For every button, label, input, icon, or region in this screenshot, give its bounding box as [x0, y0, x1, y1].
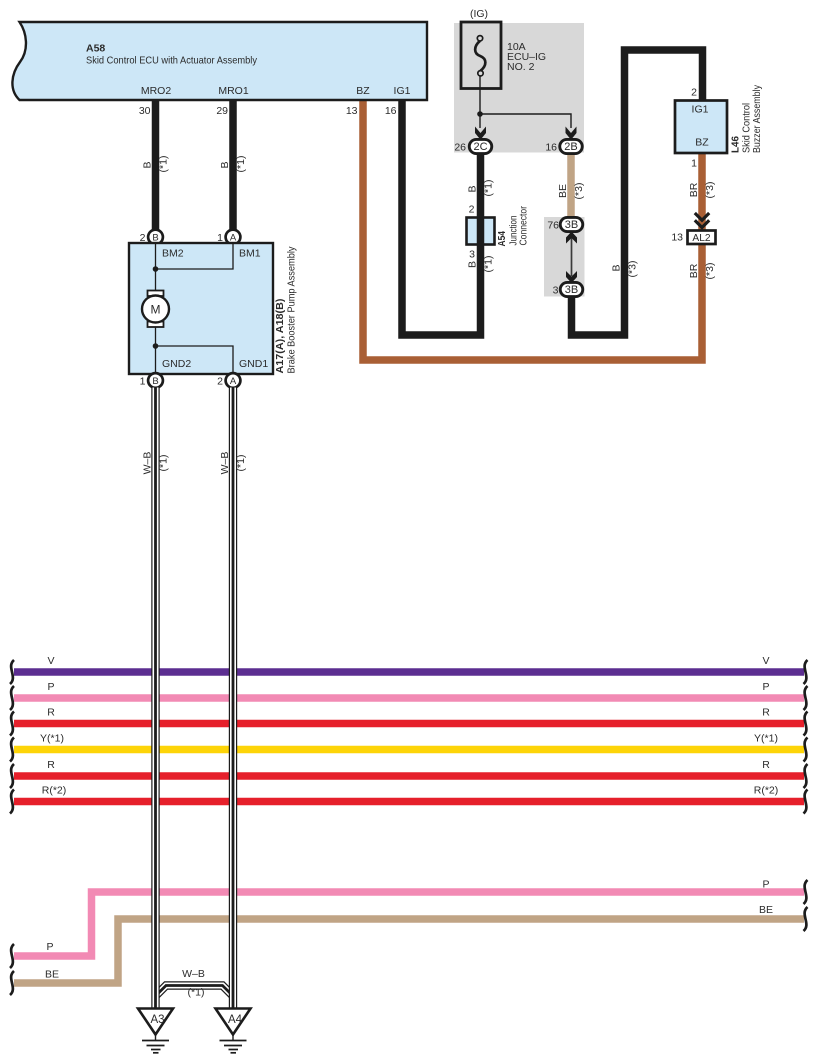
svg-text:Brake Booster Pump Assembly: Brake Booster Pump Assembly	[286, 246, 298, 374]
svg-text:3B: 3B	[565, 219, 578, 231]
svg-text:(*3): (*3)	[704, 182, 716, 199]
connector break squiggle BE lower-right	[804, 907, 808, 931]
svg-text:BM2: BM2	[162, 248, 184, 260]
svg-text:IG1: IG1	[394, 85, 411, 97]
svg-text:BR: BR	[688, 182, 700, 197]
arrows between 3B junctions	[566, 232, 577, 284]
svg-text:R(*2): R(*2)	[754, 785, 779, 797]
connector B pin2 at pump top	[140, 230, 163, 245]
svg-text:A3: A3	[150, 1014, 164, 1026]
wire W-B right vertical	[219, 388, 247, 1010]
svg-text:(*1): (*1)	[235, 455, 247, 472]
svg-text:A17(A), A18(B): A17(A), A18(B)	[274, 299, 286, 374]
svg-text:2C: 2C	[473, 141, 487, 153]
svg-text:1: 1	[691, 158, 697, 170]
svg-text:2: 2	[691, 87, 697, 99]
svg-text:Y(*1): Y(*1)	[40, 733, 64, 745]
svg-text:AL2: AL2	[692, 233, 710, 244]
svg-text:13: 13	[346, 105, 358, 117]
L46 buzzer box	[675, 84, 763, 169]
wire: fuse output thin line with junction	[477, 76, 571, 128]
label B (*1) on MRO2 wire	[142, 156, 170, 173]
svg-text:(*1): (*1)	[483, 180, 495, 197]
svg-text:P: P	[46, 941, 53, 953]
svg-text:B: B	[142, 161, 154, 168]
connector break squiggle R2 right	[804, 764, 808, 788]
svg-text:GND1: GND1	[239, 358, 268, 370]
svg-text:3: 3	[469, 249, 475, 261]
connector break squiggle P lower-left	[10, 944, 14, 968]
svg-text:2: 2	[469, 204, 475, 216]
motor M	[142, 291, 169, 328]
connector break squiggle P left	[10, 686, 14, 710]
svg-text:W–B: W–B	[142, 452, 154, 475]
svg-text:Y(*1): Y(*1)	[754, 733, 778, 745]
connector 2B	[545, 139, 582, 153]
connector 3B lower	[553, 282, 583, 296]
fuse block shading region	[454, 23, 584, 153]
wire: ECU MRO1 black	[229, 100, 237, 230]
svg-text:BE: BE	[557, 184, 569, 198]
svg-text:R: R	[762, 759, 770, 771]
svg-text:R: R	[47, 759, 55, 771]
svg-text:26: 26	[454, 142, 466, 154]
connector break squiggle Y right	[804, 738, 808, 762]
label B (*3) on black loop	[611, 261, 639, 278]
svg-text:V: V	[47, 655, 54, 667]
svg-text:M: M	[151, 303, 161, 317]
wire R red 1	[14, 707, 804, 724]
arrow into 2C	[475, 127, 486, 140]
svg-text:Connector: Connector	[518, 206, 530, 246]
svg-text:B: B	[467, 185, 479, 192]
svg-text:(*1): (*1)	[158, 156, 170, 173]
svg-text:P: P	[762, 879, 769, 891]
svg-text:3: 3	[553, 285, 559, 297]
svg-text:MRO1: MRO1	[218, 85, 248, 97]
double chevron arrow into AL2	[695, 213, 709, 228]
connector B pin1 at pump bottom	[140, 373, 163, 388]
svg-text:A: A	[230, 376, 237, 387]
svg-text:W–B: W–B	[219, 452, 231, 475]
svg-text:A4: A4	[228, 1014, 243, 1026]
connector break squiggle P lower-right	[804, 880, 808, 904]
svg-text:BE: BE	[45, 969, 59, 981]
svg-text:BM1: BM1	[239, 248, 261, 260]
wire R red 2	[14, 759, 804, 776]
connector break squiggle R3 right	[804, 790, 808, 814]
connector AL2	[671, 231, 715, 245]
svg-text:P: P	[47, 681, 54, 693]
junction connector A54	[467, 204, 530, 261]
svg-text:(*3): (*3)	[704, 263, 716, 280]
svg-text:(*1): (*1)	[158, 455, 170, 472]
connector A pin1 at pump top	[217, 230, 240, 245]
label B (*1) above A54	[467, 180, 495, 197]
svg-text:2: 2	[217, 376, 223, 388]
svg-text:(IG): (IG)	[470, 8, 488, 20]
svg-text:P: P	[762, 681, 769, 693]
label 10A ECU-IG NO. 2	[507, 41, 546, 73]
svg-text:R: R	[47, 707, 55, 719]
svg-text:B: B	[611, 264, 623, 271]
fuse ECU-IG NO.2	[461, 22, 501, 89]
svg-text:BZ: BZ	[695, 137, 709, 149]
svg-text:R(*2): R(*2)	[42, 785, 67, 797]
arrow into 2B	[566, 127, 577, 140]
wire R(*2) red 3	[14, 785, 804, 802]
svg-text:(*1): (*1)	[483, 256, 495, 273]
wire W-B left vertical	[142, 388, 170, 1010]
svg-text:BE: BE	[759, 904, 773, 916]
wire BE tan lower elbow	[14, 904, 804, 983]
connector break squiggle Y left	[10, 738, 14, 762]
junction block shading region around 3B	[544, 217, 585, 297]
ECU pin labels	[141, 85, 411, 97]
svg-text:A54: A54	[496, 231, 508, 247]
label BR (*3) above AL2	[688, 182, 716, 199]
svg-text:Buzzer Assembly: Buzzer Assembly	[751, 84, 763, 153]
label B (*1) below A54	[467, 256, 495, 273]
label BR (*3) below AL2	[688, 263, 716, 280]
wire P pink	[14, 681, 804, 698]
connector A pin2 at pump bottom	[217, 373, 240, 388]
svg-text:IG1: IG1	[692, 104, 709, 116]
svg-text:A58: A58	[86, 43, 105, 55]
svg-text:(*1): (*1)	[188, 987, 205, 999]
svg-text:2B: 2B	[564, 141, 577, 153]
svg-text:16: 16	[545, 142, 557, 154]
svg-text:(*3): (*3)	[573, 183, 585, 200]
wire P pink lower elbow	[14, 879, 804, 957]
svg-text:B: B	[467, 261, 479, 268]
svg-text:16: 16	[385, 105, 397, 117]
svg-text:76: 76	[547, 220, 559, 232]
ECU A58 box	[12, 22, 427, 100]
connector break squiggle R1 right	[804, 712, 808, 736]
svg-text:BZ: BZ	[356, 85, 370, 97]
svg-text:V: V	[762, 655, 769, 667]
pump inner wiring bottom	[153, 327, 233, 373]
connector 2C	[454, 139, 491, 153]
wire: ECU MRO2 black	[152, 100, 160, 230]
label BE (*3) on tan wire	[557, 183, 585, 200]
label (IG)	[470, 8, 488, 20]
svg-text:B: B	[152, 376, 158, 387]
svg-text:(*1): (*1)	[235, 156, 247, 173]
wire: ECU IG1 black to A54/2C	[402, 100, 481, 335]
connector break squiggle R1 left	[10, 712, 14, 736]
connector break squiggle R3 left	[10, 790, 14, 814]
connector break squiggle V right	[804, 660, 808, 684]
ECU pin numbers	[139, 105, 397, 117]
brake booster pump assembly box A17/A18	[129, 243, 298, 374]
wire: 3B to L46 IG1 black loop	[572, 50, 703, 335]
connector break squiggle BE lower-left	[10, 971, 14, 995]
connector 3B upper	[547, 217, 582, 231]
svg-text:1: 1	[140, 376, 146, 388]
svg-text:3B: 3B	[565, 284, 578, 296]
connector break squiggle P right	[804, 686, 808, 710]
wire: ECU BZ to L46 BZ brown loop	[363, 100, 702, 360]
svg-text:R: R	[762, 707, 770, 719]
wire Y yellow	[14, 733, 804, 750]
ground A4	[216, 1009, 251, 1053]
label B (*1) on MRO1 wire	[219, 156, 247, 173]
svg-text:BR: BR	[688, 263, 700, 278]
svg-text:GND2: GND2	[162, 358, 191, 370]
connector break squiggle R2 left	[10, 764, 14, 788]
svg-text:13: 13	[671, 232, 683, 244]
svg-text:29: 29	[216, 105, 228, 117]
svg-text:30: 30	[139, 105, 151, 117]
wire: 2B to 3B tan BE	[567, 152, 575, 218]
connector break squiggle V left	[10, 660, 14, 684]
svg-text:B: B	[219, 161, 231, 168]
svg-text:NO. 2: NO. 2	[507, 61, 535, 73]
W-B jumper bridge between grounds	[156, 968, 234, 999]
svg-text:Skid Control ECU with Actuator: Skid Control ECU with Actuator Assembly	[86, 55, 258, 67]
ground A3	[138, 1009, 173, 1053]
svg-text:(*3): (*3)	[627, 261, 639, 278]
svg-text:MRO2: MRO2	[141, 85, 171, 97]
wire V purple	[14, 655, 804, 672]
svg-text:W–B: W–B	[182, 968, 205, 980]
pump inner wiring top	[153, 244, 233, 291]
